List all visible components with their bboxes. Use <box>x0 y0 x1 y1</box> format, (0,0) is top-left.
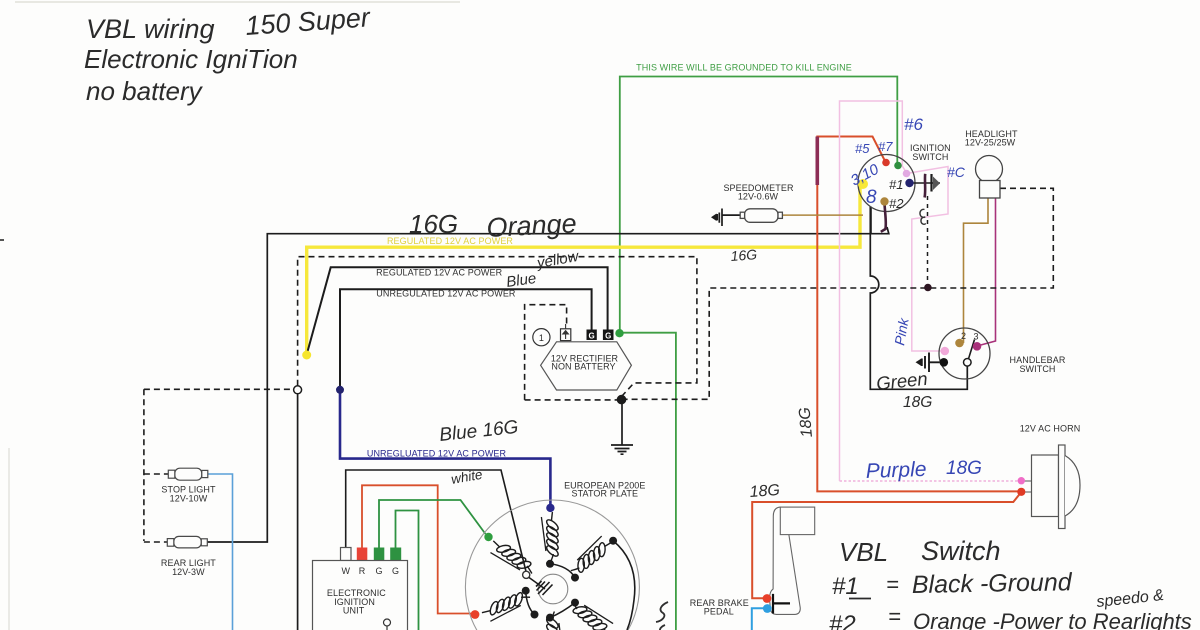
ignition switch lever and contact arrow <box>910 182 941 184</box>
wire: black regulated 12V AC power line <box>307 267 608 354</box>
svg-text:NON BATTERY: NON BATTERY <box>551 362 615 372</box>
terminal: handlebar magenta dot <box>973 342 982 351</box>
svg-text:UNIT: UNIT <box>343 605 365 615</box>
terminal: horn red dot <box>1017 488 1025 496</box>
electronic ignition unit terminals W R G G <box>341 548 352 561</box>
wire: black short stub ignition switch bottom <box>870 207 872 234</box>
wire: maroon thick overdraw on red wire <box>815 137 819 186</box>
stator wire arc lower-left to bottom <box>526 591 535 615</box>
wire: black line from open circle down <box>297 394 299 630</box>
wire: navy unregulated wire to stator <box>340 390 550 505</box>
svg-text:=: = <box>888 604 901 629</box>
svg-text:G: G <box>392 566 399 576</box>
node: stator navy dot <box>546 504 554 512</box>
svg-text:VBL: VBL <box>839 537 888 567</box>
wire: pink purple 18G wire to horn <box>840 480 1018 482</box>
svg-text:W: W <box>341 566 350 576</box>
svg-text:18G: 18G <box>946 458 982 479</box>
rectifier circled 1 <box>533 329 550 346</box>
wire: green jumper rectifier to right vertical <box>620 333 676 630</box>
svg-text:18G: 18G <box>903 394 932 411</box>
terminal: pedal blue dot <box>763 604 772 613</box>
svg-text:UNREGULATED 12V AC POWER: UNREGULATED 12V AC POWER <box>376 289 516 299</box>
hand mark: c curls on dashed wire <box>920 209 926 224</box>
svg-text:12V-25/25W: 12V-25/25W <box>965 138 1016 148</box>
electronic ignition unit box <box>313 561 408 630</box>
handlebar ground symbol <box>922 353 940 373</box>
svg-text:G: G <box>605 331 611 340</box>
stator wire arc lower-right to bottom <box>550 603 575 618</box>
svg-text:18G: 18G <box>749 482 780 501</box>
stator inner circle <box>538 574 568 604</box>
svg-text:Purple: Purple <box>865 458 926 483</box>
speedometer bulb <box>740 209 782 223</box>
svg-text:=: = <box>886 572 899 597</box>
rear brake pedal switch contact <box>773 594 790 614</box>
wire: tan wire headlight to handlebar switch <box>964 198 989 343</box>
terminal: horn pink dot <box>1018 477 1025 484</box>
stator outer circle <box>465 500 639 630</box>
electronic ignition unit wire G2 (green) <box>396 511 419 630</box>
scan speckle left margin <box>0 239 4 241</box>
wire: magenta wire headlight to handlebar switch <box>977 198 996 346</box>
node: stator black dots <box>609 537 617 545</box>
electronic ignition unit wire G1 (green) <box>379 500 486 548</box>
hand mark: green squiggle bottom <box>656 602 668 630</box>
wire: yellow regulated (hand traced) <box>307 186 860 354</box>
wire: red wire brake pedal to horn <box>752 492 1021 598</box>
svg-text:1: 1 <box>539 333 544 343</box>
terminal: ignition red dot <box>882 159 890 167</box>
coil: lower-left <box>479 588 533 623</box>
svg-text:Black -Ground: Black -Ground <box>912 568 1073 599</box>
horn body <box>1024 445 1080 529</box>
stator center points contact open circle <box>523 571 530 578</box>
headlight bulb <box>976 156 1003 183</box>
unit key symbol <box>384 619 391 626</box>
wire: tan wire speedometer to ignition area <box>783 214 864 216</box>
coil: top lighting coil <box>541 512 559 563</box>
electronic ignition unit wire W (white/black) <box>346 470 526 572</box>
svg-text:#5: #5 <box>855 141 870 156</box>
node: black dot below rectifier <box>617 395 627 405</box>
svg-text:16G: 16G <box>730 246 758 264</box>
svg-text:12V-0.6W: 12V-0.6W <box>738 192 779 202</box>
rectifier fuse symbol <box>561 329 571 341</box>
svg-text:#2: #2 <box>829 611 856 630</box>
svg-text:G: G <box>376 566 383 576</box>
svg-text:#7: #7 <box>878 139 893 154</box>
svg-text:12V-10W: 12V-10W <box>170 493 208 503</box>
svg-text:8: 8 <box>866 187 877 208</box>
scan paper edge left <box>8 448 10 630</box>
wire: black unregulated 12V AC power line <box>340 289 592 390</box>
terminal: ignition tan dot #2 <box>880 197 888 205</box>
svg-text:16G: 16G <box>409 209 458 239</box>
svg-text:no battery: no battery <box>86 76 204 106</box>
svg-text:#6: #6 <box>904 115 923 134</box>
svg-text:Orange -Power to Rearlights: Orange -Power to Rearlights <box>913 609 1192 630</box>
ground: below rectifier <box>621 399 623 445</box>
svg-text:PEDAL: PEDAL <box>704 606 734 616</box>
svg-text:UNREGLUATED 12V AC POWER: UNREGLUATED 12V AC POWER <box>367 448 507 458</box>
svg-text:12V AC HORN: 12V AC HORN <box>1020 424 1081 434</box>
handlebar switch body <box>939 328 990 379</box>
dashed frame: headlight loop to stator ground dot <box>626 188 1053 399</box>
coil: upper-left <box>487 535 538 581</box>
speedometer ground symbol <box>717 209 740 227</box>
svg-text:12V-3W: 12V-3W <box>172 567 205 577</box>
coil: upper-right <box>565 533 616 578</box>
svg-text:3: 3 <box>973 332 978 342</box>
terminal: pedal red dot <box>763 594 772 603</box>
rectifier G terminal 1 <box>587 330 597 341</box>
terminal: ignition navy dot #1 <box>905 179 913 187</box>
svg-text:G: G <box>588 331 594 340</box>
svg-text:#2: #2 <box>889 196 904 211</box>
svg-text:REGULATED 12V AC POWER: REGULATED 12V AC POWER <box>376 268 502 278</box>
terminal: ignition pink dot <box>903 170 911 178</box>
node: navy dot junction <box>336 386 344 394</box>
wire: pink box around ignition switch <box>840 101 907 481</box>
svg-text:18G: 18G <box>796 407 816 439</box>
terminal: handlebar pink dot <box>941 347 950 356</box>
node: stator red dot <box>471 610 480 619</box>
wire: blue rear brake pedal wire <box>752 608 768 630</box>
svg-text:SWITCH: SWITCH <box>912 152 948 162</box>
wire: black 16G orange circuit rear light to ignition switch <box>207 227 889 542</box>
svg-text:SWITCH: SWITCH <box>1019 364 1055 374</box>
wire: black kill wire ignition to handlebar with hop <box>870 207 967 390</box>
svg-text:THIS WIRE WILL BE GROUNDED TO: THIS WIRE WILL BE GROUNDED TO KILL ENGIN… <box>636 63 852 73</box>
svg-text:VBL wiring: VBL wiring <box>86 14 215 44</box>
hand mark: maroon stroke over lever <box>923 174 926 198</box>
node: yellow dot junction <box>302 351 311 360</box>
dashed wire: ignition switch lever to handlebar path <box>927 196 929 283</box>
hand mark: maroon stroke from terminal 2 <box>881 205 886 232</box>
rectifier hexagon body <box>541 342 632 390</box>
node: dark dot on dashed line <box>924 284 932 292</box>
svg-text:#1: #1 <box>832 573 859 600</box>
terminal: handlebar black dot <box>940 358 949 367</box>
dashed frame: big dashed loop upper block <box>298 257 697 396</box>
wire: red wire ignition switch to horn <box>817 137 1017 492</box>
dashed frame: rectifier dashed outline <box>525 305 618 400</box>
svg-text:#C: #C <box>947 164 966 180</box>
terminal: ignition green dot <box>894 162 902 170</box>
svg-text:#1: #1 <box>889 177 903 192</box>
wire: pink path ignition to handlebar switch <box>907 167 949 352</box>
electronic ignition unit wire R (red) <box>362 485 471 613</box>
svg-text:Switch: Switch <box>921 536 1001 566</box>
node: green dot on rectifier <box>615 329 623 337</box>
handlebar lever <box>969 340 975 359</box>
terminal: handlebar tan dot <box>955 339 964 348</box>
rear brake pedal shape <box>770 507 801 614</box>
node: open circle junction <box>294 386 302 394</box>
rectifier G terminal 2 <box>603 330 614 341</box>
svg-text:Electronic IgniTion: Electronic IgniTion <box>84 44 298 74</box>
svg-text:R: R <box>359 566 366 576</box>
ignition switch body <box>858 155 915 212</box>
scan paper edge top <box>15 1 460 3</box>
stator center ground hatch <box>529 578 545 590</box>
svg-text:STATOR PLATE: STATOR PLATE <box>572 489 639 499</box>
svg-text:Orange: Orange <box>486 208 578 243</box>
wire: blue stop light wire <box>208 474 233 630</box>
node: stator green dot <box>484 533 492 541</box>
coil: lower-right <box>566 594 617 630</box>
dashed frame: left harness box around tail lights <box>144 389 294 542</box>
coil: bottom <box>545 612 563 630</box>
wire: green kill-engine wire (stator ground to ignition switch) <box>620 77 898 333</box>
stop light bulb <box>168 468 208 480</box>
stator wire arc top to upper-right <box>550 564 575 578</box>
terminal: ignition yellow blob <box>858 179 868 189</box>
rear light bulb <box>167 536 207 548</box>
stator wire right outer arc <box>613 541 635 630</box>
